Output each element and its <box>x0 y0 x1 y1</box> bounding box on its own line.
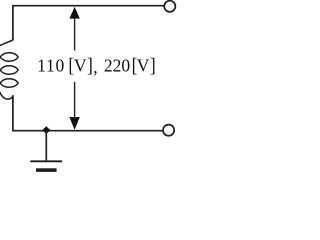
coil L1 bottom hook <box>0 89 13 99</box>
wire left vertical upper <box>12 5 14 41</box>
wire bottom horizontal <box>13 130 163 132</box>
voltage arrow head down <box>69 117 79 130</box>
coil L1 top hook <box>0 40 13 46</box>
coil L1 turn 3 <box>0 79 18 87</box>
svg-text:220: 220 <box>104 56 130 76</box>
ground stem wire <box>45 131 47 162</box>
svg-text:V: V <box>137 56 150 76</box>
terminal circle bottom-right <box>163 125 174 136</box>
coil L1 turn 2 <box>0 66 18 74</box>
wire top horizontal <box>13 5 164 7</box>
coil L1 turn 1 <box>0 53 18 61</box>
ground bar 1 <box>30 160 62 162</box>
voltage arrow shaft lower <box>74 82 76 124</box>
svg-text:]: ] <box>87 55 93 77</box>
node junction dot <box>42 126 50 134</box>
svg-text:,: , <box>93 57 97 77</box>
voltage arrow head up <box>69 7 79 19</box>
ground bar 2 <box>36 168 57 172</box>
svg-text:]: ] <box>150 55 156 77</box>
wire left vertical lower <box>12 95 14 131</box>
voltage arrow shaft upper <box>74 17 76 51</box>
svg-text:110: 110 <box>37 56 65 76</box>
svg-text:V: V <box>74 56 87 76</box>
terminal circle top-right <box>164 1 175 12</box>
